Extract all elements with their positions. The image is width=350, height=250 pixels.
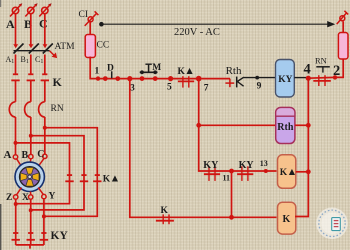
fuse right (338, 33, 348, 60)
node 3 (127, 76, 132, 81)
wire C ATM to K (44, 55, 46, 75)
arrow tip terminal C (48, 3, 51, 6)
stop button D (103, 71, 120, 81)
wire C RN to motor (44, 117, 46, 154)
logo watermark (316, 208, 348, 240)
contactor K pole B (27, 74, 35, 80)
svg-text:KY: KY (278, 75, 292, 85)
breaker tie bar (14, 50, 50, 52)
svg-text:M: M (152, 63, 161, 73)
main control wire 1-7 (98, 78, 230, 80)
svg-text:C: C (39, 17, 48, 31)
motor terminal A (13, 155, 17, 159)
svg-text:KY: KY (51, 230, 69, 242)
phase terminal A (10, 5, 21, 17)
wire Rth box to rail (295, 124, 308, 126)
svg-text:Rth: Rth (226, 65, 242, 77)
svg-text:4: 4 (304, 62, 311, 78)
coil K box (278, 202, 296, 234)
wire Rth to KY coil (black) (244, 77, 276, 79)
svg-text:K▲: K▲ (178, 66, 195, 77)
svg-text:KY: KY (239, 160, 255, 171)
node Y-delta junction (42, 214, 46, 218)
switch right top (337, 11, 349, 24)
breaker ATM blade B (29, 44, 39, 54)
motor terminal B (29, 154, 33, 158)
svg-text:K: K (53, 75, 63, 89)
wire node7 drop (199, 79, 277, 171)
wire B ATM to K (30, 55, 32, 75)
stub C to motor body (38, 158, 44, 166)
delta tap node C (43, 126, 47, 130)
arrow tip terminal A (19, 3, 22, 6)
thermal element RN pole C (39, 102, 45, 117)
stub A to motor body (17, 159, 22, 167)
svg-text:ATM: ATM (55, 42, 76, 52)
contact Rth NC (225, 77, 243, 88)
wire node11 drop (231, 171, 233, 217)
wire A ATM to K (15, 55, 17, 75)
svg-text:3: 3 (130, 83, 135, 93)
thermal element RN pole A (9, 102, 15, 117)
start button M (140, 64, 158, 81)
wire Rth branch (199, 124, 276, 126)
wire Z down to star (15, 199, 17, 245)
node 1 (96, 76, 100, 80)
wire Y down to star (43, 199, 45, 245)
motor terminal C (43, 154, 47, 158)
wire A RN to motor (15, 117, 17, 155)
contact KY first (204, 166, 220, 181)
contact KY second (237, 166, 253, 181)
wire phase B down to ATM (30, 14, 32, 45)
wire phase A down to ATM (15, 14, 17, 45)
wire X down to star (30, 199, 32, 245)
svg-text:CI: CI (79, 10, 89, 20)
wire CC to node 1 (90, 57, 98, 79)
node 11 (229, 169, 234, 174)
breaker trip arrow (50, 51, 57, 58)
page edge artifact bottom-left (0, 204, 1, 250)
coil K-delta box (278, 155, 298, 189)
node 9 (255, 76, 259, 80)
node Rth branch junction (196, 123, 201, 128)
stub motor to X (30, 192, 32, 195)
contact RN NC (313, 67, 331, 86)
contactor K pole C (41, 74, 49, 80)
node Z-delta junction (14, 202, 18, 206)
motor body (15, 162, 44, 191)
node 4 (306, 76, 311, 81)
node 2 (333, 75, 337, 79)
breaker ATM blade A (14, 44, 24, 54)
wire phase C down to ATM (44, 14, 46, 45)
wire switch to right fuse (342, 22, 344, 34)
svg-text:5: 5 (167, 83, 172, 93)
wire CI to CC fuse (89, 22, 91, 36)
svg-text:CC: CC (97, 41, 110, 51)
wire A K to RN (15, 80, 17, 101)
star contact KY pole 3 (40, 233, 48, 240)
svg-text:D: D (107, 64, 114, 74)
contact K-delta NC (control) (178, 76, 194, 87)
star point bridge (16, 244, 44, 246)
delta contact KD pole 1 (65, 175, 73, 181)
node 5 (168, 76, 173, 81)
stub motor to Z (17, 188, 22, 195)
delta contact KD pole 3 (93, 175, 101, 181)
delta contact KD pole 2 (80, 175, 88, 181)
svg-text:K▲: K▲ (103, 174, 120, 185)
svg-text:B: B (22, 150, 29, 161)
star contact KY pole 2 (27, 233, 35, 240)
switch CI (85, 11, 99, 26)
page edge artifact top-left (0, 0, 1, 7)
220V dimension line (100, 22, 334, 27)
stub B to motor body (29, 159, 32, 163)
svg-text:11: 11 (223, 174, 231, 183)
svg-text:220V - AC: 220V - AC (174, 27, 220, 38)
svg-text:RN: RN (315, 56, 327, 66)
node rail-Rth (306, 123, 311, 128)
delta loop wire B-X (31, 136, 84, 210)
thermal element RN pole B (25, 102, 31, 117)
node bottom-11 junction (229, 215, 234, 220)
svg-text:2: 2 (333, 63, 340, 79)
wire node3 drop (130, 79, 277, 218)
breaker ATM blade C (43, 44, 53, 54)
svg-text:A: A (4, 149, 12, 161)
svg-text:Y: Y (49, 192, 56, 202)
svg-text:9: 9 (257, 82, 262, 92)
node 13 (264, 169, 268, 173)
wire K-delta box to rail (296, 171, 309, 173)
wire KY to node 4 (black) (294, 77, 308, 79)
right rail from node 4 (295, 78, 308, 216)
contact K (bottom) (156, 214, 174, 224)
wire node4 to node2 (308, 76, 335, 79)
delta loop wire C-Y (44, 128, 97, 217)
node rail-Kdelta (306, 169, 311, 174)
svg-text:K: K (161, 206, 169, 216)
contactor K pole A (11, 74, 19, 80)
star contact KY pole 1 (12, 233, 20, 240)
arrow tip terminal B (34, 3, 37, 6)
arrowhead pole A (13, 44, 18, 48)
star point stub (29, 245, 31, 249)
node 7 (196, 76, 202, 82)
delta tap node B (29, 134, 33, 138)
motor terminal X (29, 195, 33, 199)
svg-text:13: 13 (260, 159, 268, 168)
fuse CC (85, 35, 95, 58)
svg-text:X: X (22, 193, 29, 203)
phase terminal B (25, 5, 36, 17)
motor terminal Z (14, 195, 18, 199)
phase terminal C (39, 5, 50, 17)
wire B RN to motor (30, 117, 32, 154)
delta tap node A (14, 141, 18, 145)
arrowhead pole C (43, 44, 48, 48)
svg-text:1: 1 (95, 67, 100, 77)
svg-text:K: K (283, 214, 291, 225)
svg-text:7: 7 (204, 83, 209, 93)
motor terminal Y (42, 194, 46, 198)
svg-text:KY: KY (203, 160, 219, 171)
arrowhead pole B (29, 44, 34, 48)
svg-text:RN: RN (51, 104, 64, 114)
delta loop wire A-Z (16, 143, 70, 204)
svg-text:Rth: Rth (277, 122, 294, 133)
timer coil Rth box (276, 108, 295, 144)
svg-text:Z: Z (6, 193, 12, 203)
svg-text:K▲: K▲ (280, 167, 297, 178)
wire B K to RN (30, 80, 32, 101)
coil KY box (276, 60, 295, 98)
stub motor to Y (38, 188, 43, 195)
wire right fuse to node 2 (335, 59, 343, 77)
wire C K to RN (44, 80, 46, 101)
svg-text:A: A (6, 17, 15, 31)
node X-delta junction (29, 208, 33, 212)
